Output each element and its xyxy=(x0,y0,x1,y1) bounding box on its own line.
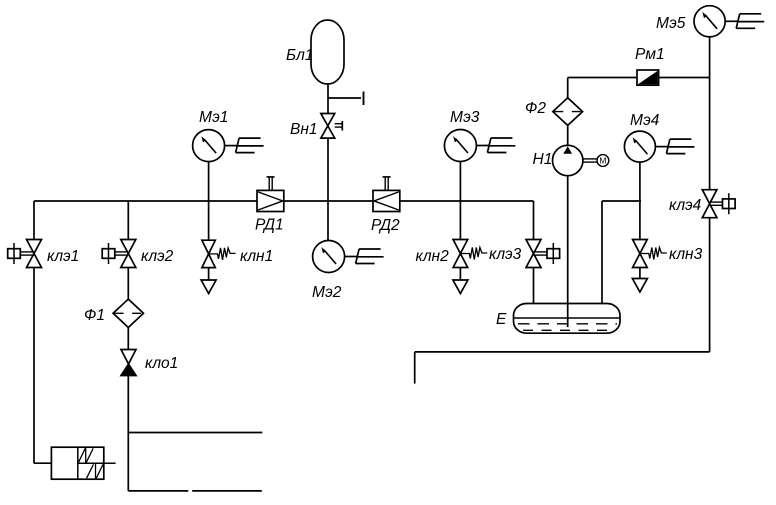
valve клэ1 xyxy=(27,240,42,268)
gauge Мэ5 xyxy=(694,6,725,37)
wire Мэ1 stem / клн1 feed xyxy=(208,162,210,241)
svg-text:Мэ5: Мэ5 xyxy=(656,15,686,32)
svg-text:кло1: кло1 xyxy=(145,355,178,372)
filter Ф2 xyxy=(553,98,583,126)
label РД2 xyxy=(371,217,400,234)
connector Мэ4 xyxy=(655,139,694,154)
label Мэ3 xyxy=(450,109,480,126)
wire Мэ4 stem / клн3 feed xyxy=(639,162,641,240)
svg-text:клэ4: клэ4 xyxy=(669,197,702,214)
valve клэ4 xyxy=(702,190,717,218)
wire клэ1 column upper xyxy=(33,201,35,240)
wire клэ4 drain drop xyxy=(709,218,711,352)
valve клн3 xyxy=(633,240,648,268)
wire gauge Мэ2 drop xyxy=(327,201,329,241)
wire кло1 column lower xyxy=(127,375,129,491)
svg-text:Вн1: Вн1 xyxy=(290,121,318,138)
accumulator Бл1 xyxy=(311,20,344,84)
gauge Мэ4 xyxy=(624,131,655,162)
label Мэ2 xyxy=(312,284,342,301)
label Мэ4 xyxy=(630,112,660,129)
label Н1 xyxy=(533,151,553,168)
wire pump pressure line xyxy=(568,77,710,79)
tank Е xyxy=(514,304,621,334)
svg-text:Ф2: Ф2 xyxy=(525,100,546,117)
wire pump suction into tank xyxy=(567,176,569,328)
svg-text:Мэ3: Мэ3 xyxy=(450,109,480,126)
restrictor Рм1 xyxy=(637,70,659,85)
regulator РД2 xyxy=(373,177,400,212)
label клэ3 xyxy=(489,246,522,263)
label Рм1 xyxy=(635,46,665,63)
label Бл1 xyxy=(286,47,313,64)
svg-text:РД2: РД2 xyxy=(371,217,400,234)
wire accumulator side tap xyxy=(328,97,361,99)
wire tank right riser xyxy=(601,201,603,303)
spring клн1 xyxy=(210,248,236,260)
label Ф2 xyxy=(525,100,546,117)
spring клн2 xyxy=(461,248,487,260)
valve клэ2 xyxy=(121,240,136,268)
actuator клэ1 xyxy=(8,243,34,264)
gauge Мэ1 xyxy=(193,130,225,162)
vent клн2 xyxy=(453,280,468,294)
wire right header xyxy=(602,200,641,202)
wire Ф1 to кло1 xyxy=(127,328,129,350)
check valve кло1 xyxy=(121,350,136,376)
valve Вн1 xyxy=(321,114,342,139)
pump Н1 with motor xyxy=(553,145,609,175)
valve клэ3 xyxy=(526,240,541,268)
wire bottom branch lower left xyxy=(128,490,188,492)
label клэ2 xyxy=(141,248,174,265)
label РД1 xyxy=(255,217,284,234)
valve клн1 xyxy=(202,240,215,267)
wire Мэ3 stem / клн2 feed xyxy=(459,161,461,240)
wire drain outlet stub xyxy=(414,352,416,384)
wire drain header xyxy=(415,351,710,353)
wire Ф2 to pump xyxy=(567,125,569,146)
gauge Мэ2 xyxy=(313,241,345,273)
label Е xyxy=(496,311,507,328)
label Мэ5 xyxy=(656,15,686,32)
regulator РД1 xyxy=(257,177,284,212)
wire main supply line xyxy=(34,200,534,202)
filter Ф1 xyxy=(113,299,143,327)
connector Мэ3 xyxy=(476,138,515,153)
label клэ4 xyxy=(669,197,702,214)
svg-text:М: М xyxy=(599,156,606,166)
cylinder with spring return xyxy=(51,447,115,479)
wire клэ3 to tank xyxy=(533,267,535,303)
node side tap end tick xyxy=(363,92,365,106)
svg-text:Бл1: Бл1 xyxy=(286,47,313,64)
connector Мэ5 xyxy=(725,14,764,28)
svg-text:Рм1: Рм1 xyxy=(635,46,665,63)
gauge Мэ3 xyxy=(444,130,476,162)
svg-text:клэ3: клэ3 xyxy=(489,246,522,263)
wire клэ3 column upper xyxy=(533,201,535,240)
wire клн3 vent stub xyxy=(639,268,641,279)
wire клэ2 column upper xyxy=(127,201,129,240)
svg-text:Н1: Н1 xyxy=(533,151,553,168)
wire клэ1 column lower xyxy=(33,267,35,463)
wire клэ2 to Ф1 xyxy=(127,267,129,300)
actuator клэ3 xyxy=(534,243,560,264)
svg-text:клэ1: клэ1 xyxy=(47,248,79,265)
label клн3 xyxy=(669,246,703,263)
vent клн3 xyxy=(632,279,647,293)
actuator клэ2 xyxy=(102,243,128,264)
svg-text:клэ2: клэ2 xyxy=(141,248,174,265)
label Вн1 xyxy=(290,121,318,138)
svg-text:Ф1: Ф1 xyxy=(84,307,105,324)
svg-text:клн3: клн3 xyxy=(669,246,703,263)
label кло1 xyxy=(145,355,178,372)
label Мэ1 xyxy=(199,109,228,126)
svg-text:Мэ4: Мэ4 xyxy=(630,112,660,129)
label клн1 xyxy=(240,248,273,265)
svg-text:клн2: клн2 xyxy=(416,248,450,265)
wire bottom branch lower right xyxy=(192,490,262,492)
svg-text:Мэ2: Мэ2 xyxy=(312,284,342,301)
connector Мэ2 xyxy=(345,249,384,264)
wire Мэ5 stem / клэ4 column xyxy=(709,37,711,191)
vent клн1 xyxy=(201,280,216,294)
connector Мэ1 xyxy=(225,138,264,153)
actuator клэ4 xyxy=(710,193,735,214)
svg-text:Мэ1: Мэ1 xyxy=(199,109,228,126)
wire bottom branch upper xyxy=(128,432,262,434)
wire Ф2 riser xyxy=(567,78,569,99)
wire branch to accumulator column xyxy=(327,84,329,201)
wire cylinder feed xyxy=(34,462,51,464)
valve клн2 xyxy=(453,240,468,268)
label клэ1 xyxy=(47,248,79,265)
svg-text:Е: Е xyxy=(496,311,507,328)
spring клн3 xyxy=(641,248,667,260)
wire клн1 vent stub xyxy=(208,267,210,280)
svg-text:клн1: клн1 xyxy=(240,248,273,265)
label клн2 xyxy=(416,248,450,265)
wire клн2 vent stub xyxy=(459,267,461,280)
label Ф1 xyxy=(84,307,105,324)
svg-text:РД1: РД1 xyxy=(255,217,284,234)
